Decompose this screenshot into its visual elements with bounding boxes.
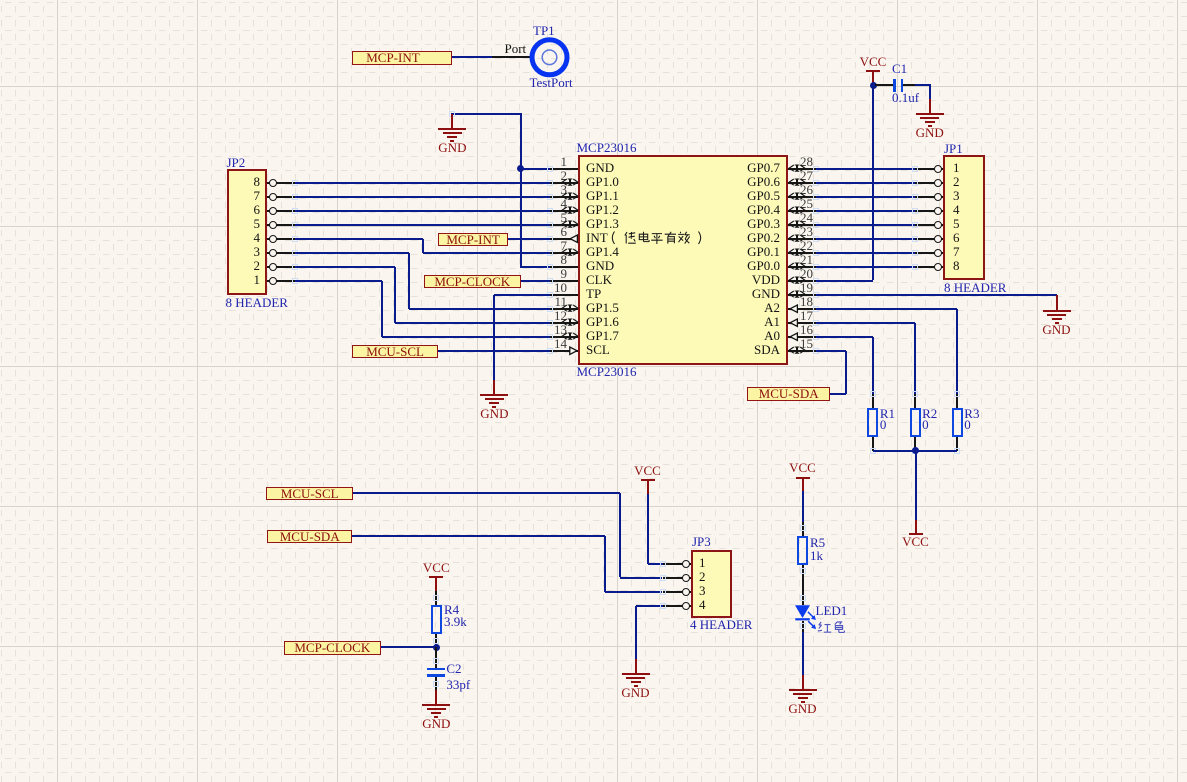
JP1 pin 7 hotspot (912, 250, 918, 256)
pin 24 stub (788, 224, 816, 226)
wire JP2.5 to U1.5 (295, 224, 550, 226)
junction R4/C2 (433, 644, 440, 651)
wire U1.18 A2 seg1 (816, 308, 957, 310)
wire MCU-SDA seg1 (352, 535, 605, 537)
JP1 pin 6 hotspot (912, 236, 918, 242)
pin 7 stub (550, 252, 578, 254)
pin 12 stub (550, 322, 578, 324)
pin 27 bidir glyph (788, 178, 806, 187)
wire U1.15 SDA seg1 (816, 350, 846, 352)
pin 5 name GP1.3 (586, 217, 619, 230)
wire MCU-SCL seg1 (353, 492, 620, 494)
JP1 pin 3 hotspot (912, 194, 918, 200)
pin 6 name INT (CJK) (586, 231, 608, 244)
pin 25 hotspot (813, 208, 819, 214)
designator LED1 (816, 604, 848, 617)
comment TestPort (530, 76, 573, 89)
pin 24 number (800, 211, 813, 224)
power VCC for JP3 (628, 464, 668, 477)
pin 2 stub (550, 182, 578, 184)
wire U1.24 to JP1.5 (816, 224, 915, 226)
pin 28 number (800, 155, 813, 168)
JP2 pin 5 circle (269, 221, 277, 229)
pin 15 number (800, 337, 813, 350)
JP1 pin 3 circle (934, 193, 942, 201)
JP3 pin 3 stub (663, 591, 691, 593)
C2 bottom pin (435, 677, 437, 691)
pin 12 number (549, 309, 567, 322)
pin 1 hotspot (547, 166, 553, 172)
wire JP3.4 seg2 (635, 606, 637, 659)
wire JP2.2 to U1.12 seg1 (295, 266, 395, 268)
capacitor C1 (875, 84, 894, 86)
wire gnd vertical (520, 113, 522, 268)
JP3 pin 1 circle (682, 560, 690, 568)
pin 19 stub (788, 294, 816, 296)
pin 21 name GP0.0 (660, 259, 780, 272)
value 3.9k (444, 615, 467, 628)
pin 13 number (549, 323, 567, 336)
wire U1.10 TP seg1 (494, 294, 550, 296)
JP3 pin 4 number (699, 598, 706, 611)
JP3 pin 2 circle (682, 574, 690, 582)
JP3 pin 1 hotspot (660, 561, 666, 567)
wire VCC down to VDD pin 20 (872, 84, 874, 280)
wire MCU-SDA seg3 (605, 591, 662, 593)
pin 1 name GND (586, 161, 614, 174)
pin 21 bidir glyph (788, 262, 806, 271)
value 0 (964, 418, 971, 431)
pin 27 stub (788, 182, 816, 184)
pin 15 name SDA (660, 343, 780, 356)
pin 18 hotspot (813, 306, 819, 312)
pin 28 name GP0.7 (660, 161, 780, 174)
wire JP2.8 to U1.2 (295, 182, 550, 184)
ground symbol TP (479, 393, 509, 395)
pin 25 number (800, 197, 813, 210)
pin 19 number (800, 281, 813, 294)
JP1 pin 1 circle (934, 165, 942, 173)
pin 9 stub (550, 280, 578, 282)
pin 19 hotspot (813, 292, 819, 298)
pin 13 bidir glyph (561, 332, 579, 341)
JP2 pin 8 hotspot (292, 180, 298, 186)
JP2 pin 7 stub (267, 196, 295, 198)
pin 24 hotspot (813, 222, 819, 228)
designator JP2 (227, 156, 246, 169)
hotspot gnd corner (449, 111, 455, 117)
wire C1 to gnd (915, 84, 931, 86)
ground symbol pin19 (1042, 309, 1072, 311)
JP2 pin 1 number (240, 273, 260, 286)
value 0 (880, 418, 887, 431)
pin 26 number (800, 183, 813, 196)
pin 26 name GP0.5 (660, 189, 780, 202)
pin 8 number (549, 253, 567, 266)
JP3 pin 3 number (699, 584, 706, 597)
pin 7 name GP1.4 (586, 245, 619, 258)
wire to pin 8 (520, 266, 550, 268)
junction R bottom (912, 447, 919, 454)
value 0.1uf (892, 91, 919, 104)
comment 8 HEADER (JP1) (944, 281, 1006, 294)
pin 27 number (800, 169, 813, 182)
wire MCP-INT to U1.6 (508, 238, 550, 240)
pin 11 number (549, 295, 567, 308)
power VCC for R4 (416, 561, 456, 574)
pin 6 out arrow (569, 234, 579, 244)
wire JP3.4 seg1 (636, 605, 663, 607)
pin 23 bidir glyph (788, 234, 806, 243)
wire U1.18 A2 seg2 (956, 309, 958, 394)
pin 14 in arrow (569, 346, 579, 356)
pin 26 stub (788, 196, 816, 198)
JP2 pin 4 stub (267, 238, 295, 240)
JP2 pin 4 hotspot (292, 236, 298, 242)
JP1 pin 4 number (953, 203, 960, 216)
designator C1 (892, 62, 907, 75)
wire JP2.4 to U1.7 seg1 (295, 238, 423, 240)
pin 4 stub (550, 210, 578, 212)
pin 24 bidir glyph (788, 220, 806, 229)
pin 10 stub (550, 294, 578, 296)
pin 3 stub (550, 196, 578, 198)
wire VCC to JP3.1 seg1 (647, 494, 649, 564)
wire MCU-SCL to U1.14 (438, 350, 550, 352)
wire JP2.1 to U1.13 seg3 (382, 336, 551, 338)
wire U1.21 to JP1.8 (816, 266, 915, 268)
JP1 pin 5 hotspot (912, 222, 918, 228)
pin 10 name TP (586, 287, 601, 300)
ground symbol JP3 (621, 672, 651, 674)
designator R5 (810, 536, 825, 549)
pin 13 hotspot (547, 334, 553, 340)
wire JP2.3 to U1.11 seg2 (408, 253, 410, 309)
designator R1 (880, 407, 895, 420)
value 33pf (446, 678, 470, 691)
pin 28 stub (788, 168, 816, 170)
JP2 pin 6 number (240, 203, 260, 216)
wire to VCC down (915, 451, 917, 521)
JP3 pin 1 stub (663, 563, 691, 565)
JP2 pin 2 number (240, 259, 260, 272)
wire U1.26 to JP1.3 (816, 196, 915, 198)
JP1 pin 2 hotspot (912, 180, 918, 186)
pin 3 bidir glyph (561, 192, 579, 201)
resistor R5 body (797, 536, 808, 565)
ground symbol top left (451, 114, 453, 128)
pin 8 name GND (586, 259, 614, 272)
comment 4 HEADER (690, 618, 752, 631)
pin 12 hotspot (547, 320, 553, 326)
pin 4 number (549, 197, 567, 210)
pin 21 number (800, 253, 813, 266)
pin Port of TP1 (492, 56, 530, 58)
designator C2 (446, 662, 461, 675)
wire LED to gnd (802, 621, 804, 633)
resistor R2 pins (914, 394, 916, 408)
net label MCU-SCL (mid) (352, 345, 438, 359)
ground symbol LED (788, 688, 818, 690)
JP1 pin 4 stub (915, 210, 943, 212)
R4 top pin (435, 591, 437, 606)
pin 14 number (549, 337, 567, 350)
R4 bottom pin (435, 634, 437, 647)
JP1 pin 8 hotspot (912, 264, 918, 270)
pin 7 number (549, 239, 567, 252)
JP2 pin 2 circle (269, 263, 277, 271)
pin 23 number (800, 225, 813, 238)
hotspots R2 (912, 391, 918, 397)
pin 25 bidir glyph (788, 206, 806, 215)
JP2 pin 5 stub (267, 224, 295, 226)
JP1 pin 6 circle (934, 235, 942, 243)
capacitor C2 plates (427, 668, 445, 670)
wire to pin 1 (520, 168, 550, 170)
wire U1.25 to JP1.4 (816, 210, 915, 212)
JP2 pin 2 hotspot (292, 264, 298, 270)
resistor R1 pins (872, 394, 874, 408)
pin 16 name A0 (660, 329, 780, 342)
value 0 (922, 418, 929, 431)
pin 1 stub (550, 168, 578, 170)
pin 23 name GP0.2 (660, 231, 780, 244)
pin 12 bidir glyph (561, 318, 579, 327)
pin 13 stub (550, 336, 578, 338)
pin 2 hotspot (547, 180, 553, 186)
pin 3 hotspot (547, 194, 553, 200)
pin 22 bidir glyph (788, 248, 806, 257)
wire U1.22 to JP1.7 (816, 252, 915, 254)
pin 11 stub (550, 308, 578, 310)
JP2 pin 5 number (240, 217, 260, 230)
wire JP2.1 to U1.13 seg2 (381, 281, 383, 337)
JP3 pin 2 hotspot (660, 575, 666, 581)
JP2 pin 7 circle (269, 193, 277, 201)
pin 5 stub (550, 224, 578, 226)
JP1 pin 5 number (953, 217, 960, 230)
value red color CJK (817, 621, 849, 636)
JP2 pin 7 number (240, 189, 260, 202)
pin 11 hotspot (547, 306, 553, 312)
R5 bottom pin (802, 565, 804, 605)
pin 28 hotspot (813, 166, 819, 172)
JP1 pin 1 hotspot (912, 166, 918, 172)
ground symbol C1 (929, 99, 931, 113)
wire U1.17 A1 seg1 (816, 322, 915, 324)
pin 5 hotspot (547, 222, 553, 228)
wire U1.19 GND (816, 294, 1057, 296)
JP1 pin 3 number (953, 189, 960, 202)
wire U1.16 A0 seg1 (816, 336, 873, 338)
wire U1.16 A0 seg2 (872, 337, 874, 394)
pin 11 name GP1.5 (586, 301, 619, 314)
JP2 pin 4 circle (269, 235, 277, 243)
JP3 pin 3 hotspot (660, 589, 666, 595)
pin 15 hotspot (813, 348, 819, 354)
JP2 pin 1 hotspot (292, 278, 298, 284)
designator TP1 (533, 24, 555, 37)
JP2 pin 3 circle (269, 249, 277, 257)
ground stem TP (493, 380, 495, 394)
pin 6 number (549, 225, 567, 238)
testpoint TP1 (527, 35, 573, 81)
JP1 pin 6 stub (915, 238, 943, 240)
pin 22 stub (788, 252, 816, 254)
pin 24 name GP0.3 (660, 217, 780, 230)
wire U1.23 to JP1.6 (816, 238, 915, 240)
pin 2 bidir glyph (561, 178, 579, 187)
JP3 pin 1 number (699, 556, 706, 569)
pin 19 bidir glyph (788, 290, 806, 299)
wire MCP-CLOCK to U1.9 (521, 280, 551, 282)
designator R2 (922, 407, 937, 420)
net label MCU-SCL (low) (266, 487, 353, 501)
net label MCP-CLOCK (mid) (424, 275, 521, 289)
wire MCU-SCL seg3 (620, 577, 662, 579)
pin 4 bidir glyph (561, 206, 579, 215)
pin 21 stub (788, 266, 816, 268)
wire MCP-INT to TP1 (452, 56, 492, 58)
JP1 pin 4 circle (934, 207, 942, 215)
pin 27 hotspot (813, 180, 819, 186)
ground symbol C2 (421, 703, 451, 705)
JP1 pin 7 stub (915, 252, 943, 254)
pin 3 number (549, 183, 567, 196)
pin 9 number (549, 267, 567, 280)
net label MCU-SDA (right) (747, 387, 831, 401)
pin 10 hotspot (547, 292, 553, 298)
R5 top pin (802, 522, 804, 536)
pin 20 stub (788, 280, 816, 282)
wire U1.17 A1 seg2 (914, 323, 916, 394)
hotspots R3 (954, 391, 960, 397)
JP2 pin 7 hotspot (292, 194, 298, 200)
label Port (505, 42, 527, 55)
pin 22 number (800, 239, 813, 252)
JP1 pin 8 number (953, 259, 960, 272)
JP3 pin 4 circle (682, 602, 690, 610)
designator MCP23016 top (577, 141, 637, 154)
JP3 pin 2 number (699, 570, 706, 583)
power VCC (down style) (915, 520, 917, 534)
pin 27 name GP0.6 (660, 175, 780, 188)
header JP3 body (691, 550, 733, 618)
IC body MCP23016 (578, 155, 788, 365)
power VCC for R5 (783, 461, 823, 474)
pin 18 in arrow (789, 304, 799, 314)
resistor R2 body (910, 408, 921, 437)
wire resistor commons (873, 450, 957, 452)
designator JP3 (692, 535, 711, 548)
wire U1.28 to JP1.1 (816, 168, 915, 170)
wire MCU-SDA seg2 (604, 536, 606, 592)
JP1 pin 2 circle (934, 179, 942, 187)
LED LED1 (791, 601, 821, 631)
designator R3 (964, 407, 979, 420)
pin 6 hotspot (547, 236, 553, 242)
JP2 pin 8 stub (267, 182, 295, 184)
header JP2 body (227, 169, 267, 295)
wire JP2.3 to U1.11 seg3 (409, 308, 550, 310)
pin 17 hotspot (813, 320, 819, 326)
pin 13 name GP1.7 (586, 329, 619, 342)
pin 20 name VDD (660, 273, 780, 286)
junction at pin1 wire (517, 165, 524, 172)
pin 7 bidir glyph (561, 248, 579, 257)
JP1 pin 4 hotspot (912, 208, 918, 214)
power VCC top (853, 55, 893, 68)
JP1 pin 8 circle (934, 263, 942, 271)
pin 18 name A2 (660, 301, 780, 314)
net label MCP-CLOCK (low) (284, 641, 382, 655)
JP2 pin 6 circle (269, 207, 277, 215)
pin 6 stub (550, 238, 578, 240)
JP2 pin 1 stub (267, 280, 295, 282)
net label MCP-INT (top) (352, 51, 452, 65)
JP1 pin 1 stub (915, 168, 943, 170)
hotspots R1 (870, 391, 876, 397)
wire VCC to R5 (802, 491, 804, 522)
JP1 pin 6 number (953, 231, 960, 244)
pin 17 number (800, 309, 813, 322)
wire JP2.4 to U1.7 seg3 (423, 252, 550, 254)
pin 26 bidir glyph (788, 192, 806, 201)
JP1 pin 1 number (953, 161, 960, 174)
pin 17 name A1 (660, 315, 780, 328)
comment MCP23016 bottom (577, 365, 637, 378)
pin 16 number (800, 323, 813, 336)
wire U1.27 to JP1.2 (816, 182, 915, 184)
pin 16 stub (788, 336, 816, 338)
resistor R3 pins (956, 394, 958, 408)
comment 8 HEADER (JP2) (226, 296, 288, 309)
resistor R4 body (431, 605, 442, 634)
JP3 pin 4 stub (663, 605, 691, 607)
pin 7 hotspot (547, 250, 553, 256)
wire U1.10 TP seg2 (493, 295, 495, 380)
JP2 pin 2 stub (267, 266, 295, 268)
JP3 pin 4 hotspot (660, 603, 666, 609)
pin 19 name GND (660, 287, 780, 300)
JP2 pin 8 circle (269, 179, 277, 187)
JP2 pin 3 number (240, 245, 260, 258)
pin 14 stub (550, 350, 578, 352)
wire JP2.1 to U1.13 seg1 (295, 280, 382, 282)
pin 20 bidir glyph (788, 276, 806, 285)
pin 14 name SCL (586, 343, 610, 356)
pin 5 number (549, 211, 567, 224)
pin 23 stub (788, 238, 816, 240)
pin 22 name GP0.1 (660, 245, 780, 258)
wire JP2.3 to U1.11 seg1 (295, 252, 409, 254)
JP2 pin 6 hotspot (292, 208, 298, 214)
JP1 pin 7 circle (934, 249, 942, 257)
pin 1 number (549, 155, 567, 168)
header JP1 body (943, 155, 985, 280)
net label MCP-INT (mid) (438, 233, 509, 247)
wire MCP-CLOCK to junction (381, 646, 436, 648)
pin 25 stub (788, 210, 816, 212)
pin 18 number (800, 295, 813, 308)
JP2 pin 3 stub (267, 252, 295, 254)
wire MCU-SCL seg2 (619, 493, 621, 577)
pin 17 in arrow (789, 318, 799, 328)
wire U1.15 SDA seg2 (845, 351, 847, 394)
pin 16 in arrow (789, 332, 799, 342)
ground stem C2 (435, 690, 437, 704)
JP2 pin 8 number (240, 175, 260, 188)
